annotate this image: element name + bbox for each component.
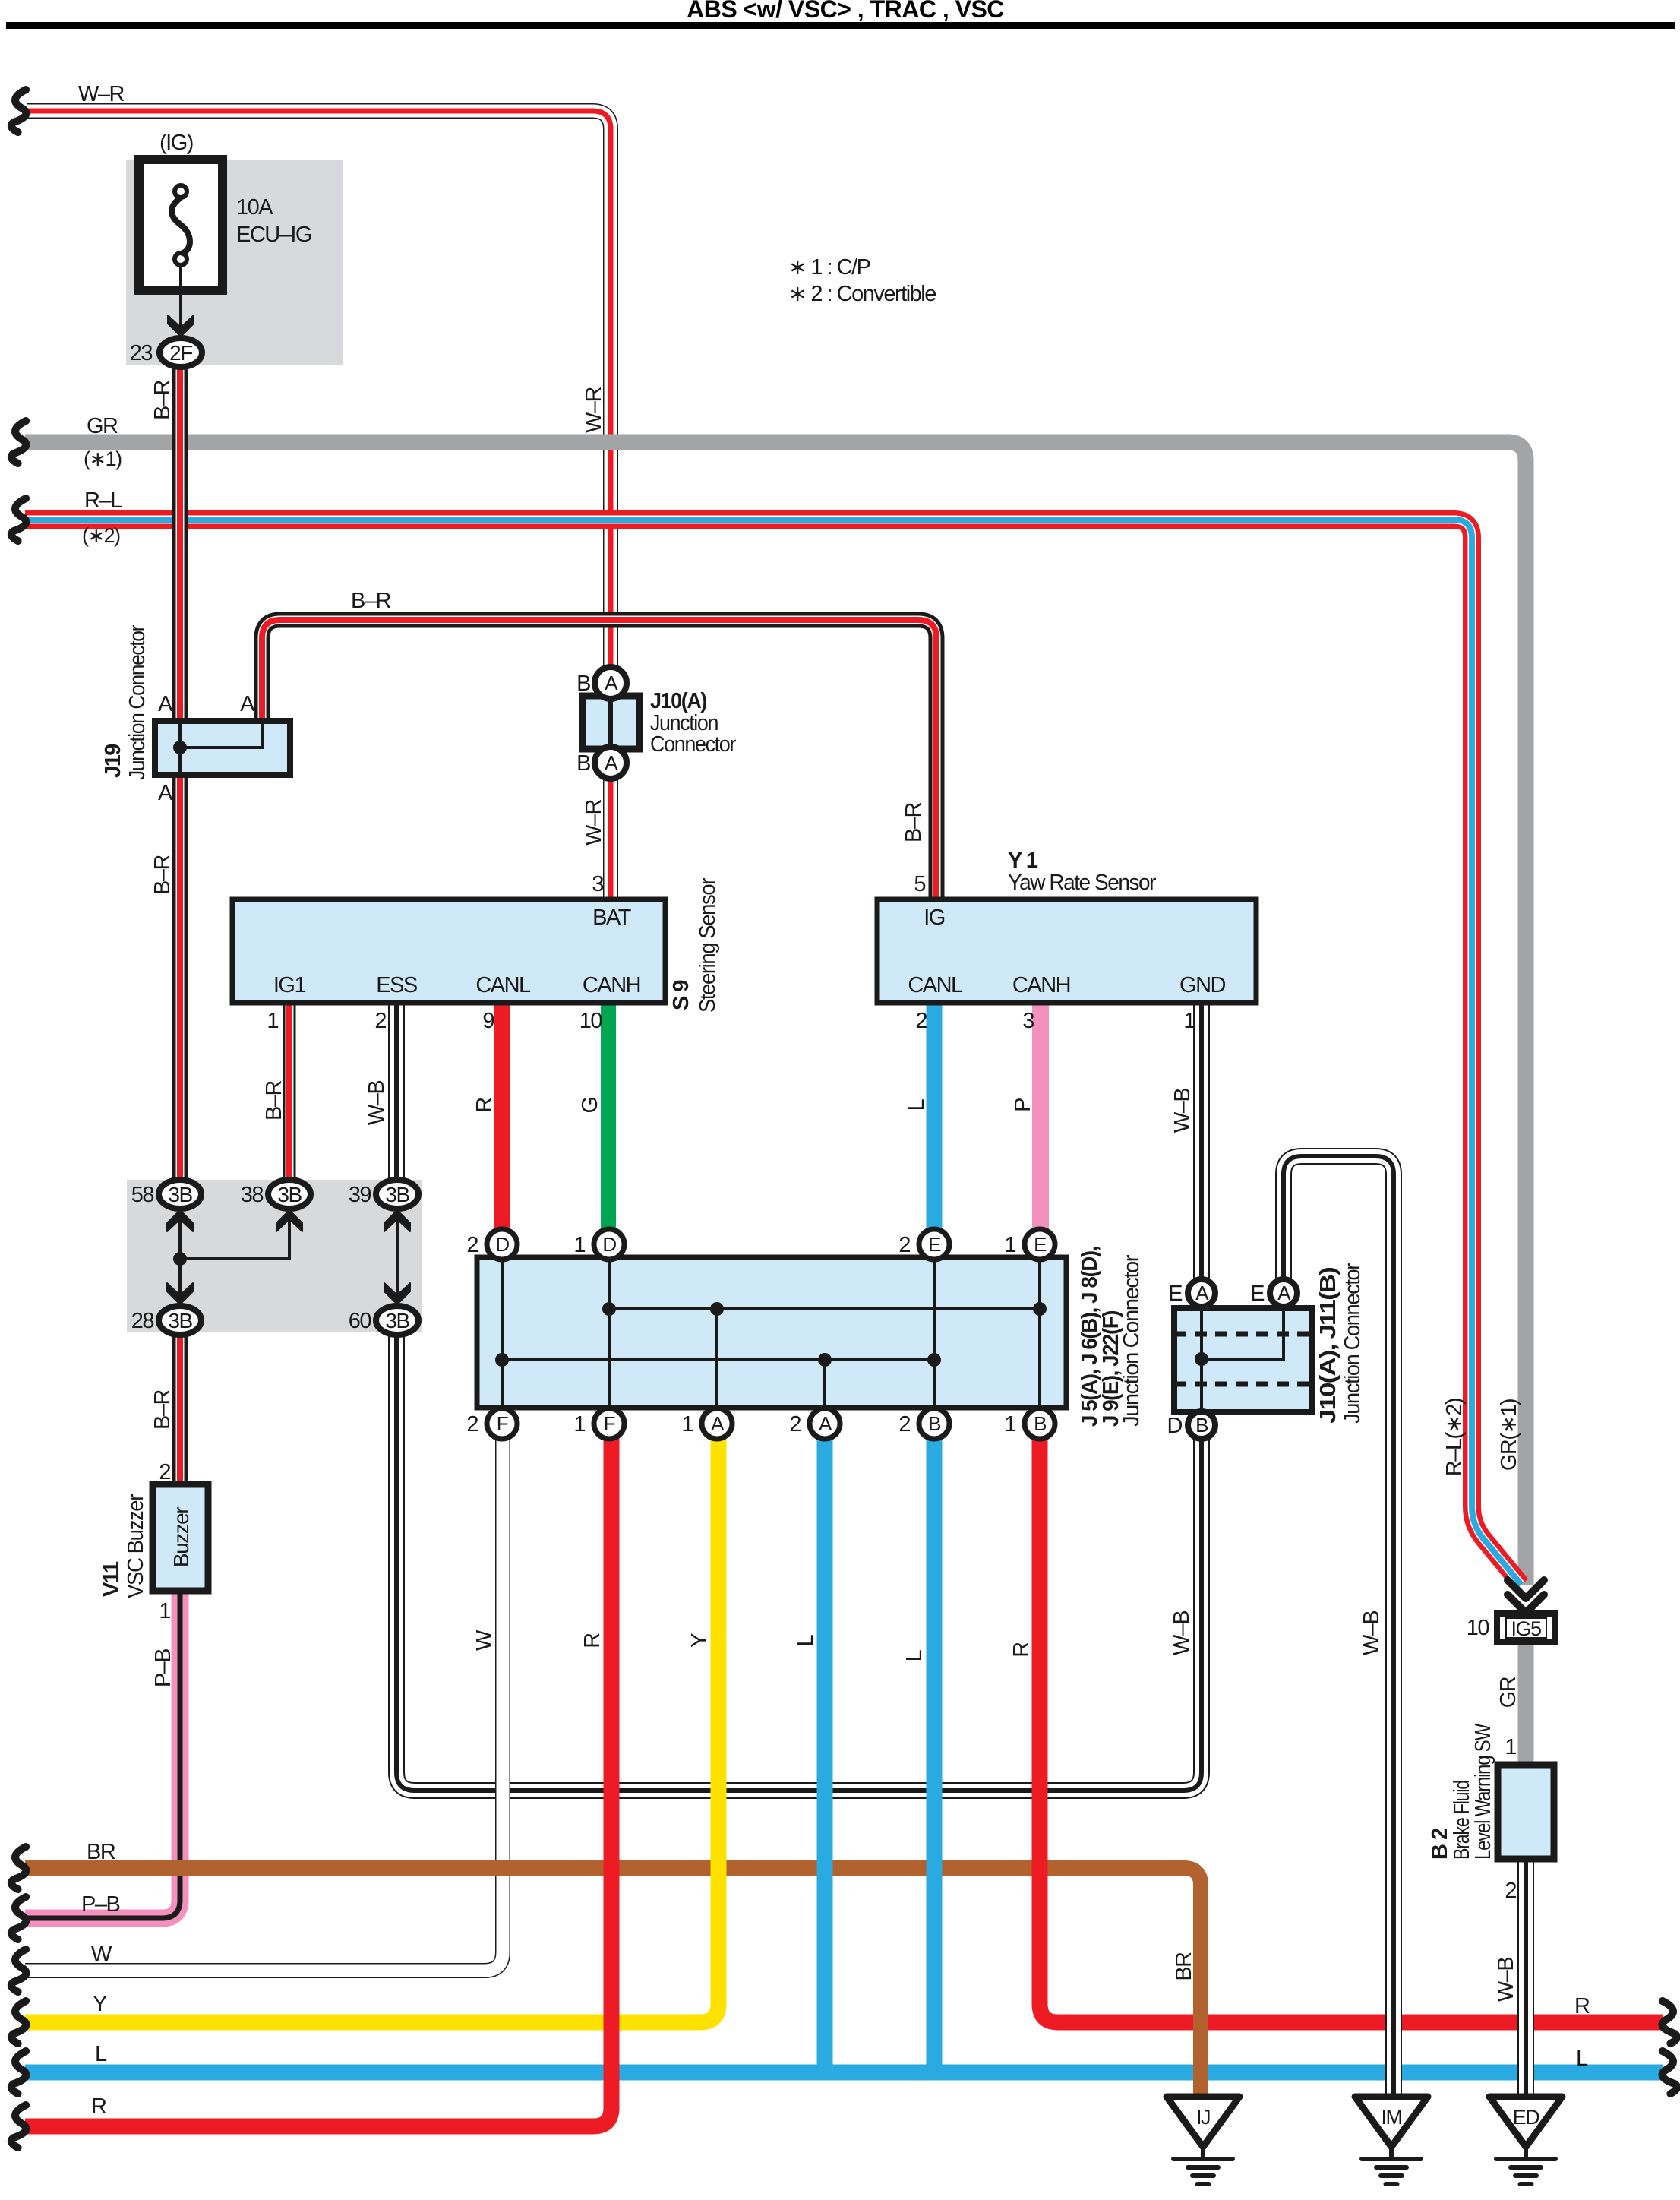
svg-text:IG: IG [924,906,945,930]
svg-text:J10(A), J11(B): J10(A), J11(B) [1316,1267,1341,1424]
svg-text:L: L [95,2042,107,2066]
svg-text:ED: ED [1513,2106,1540,2129]
junction pin D2 [466,1229,517,1260]
junction pin F2 [466,1408,517,1439]
wire GR IG5 to B2 [1518,1642,1534,1765]
junction pin A2 [789,1408,840,1439]
wire B-R S9 IG1 to ECU pin 38 [283,1003,296,1182]
wire B-R branch J19 to Y1 IG [262,620,936,899]
junction pin A1 [681,1408,732,1439]
svg-text:IG5: IG5 [1511,1617,1541,1640]
svg-text:R: R [472,1098,497,1113]
svg-text:BR: BR [1172,1952,1196,1981]
svg-text:1: 1 [681,1412,693,1437]
junction pin F1 [573,1408,624,1439]
junction pin B2 [898,1408,949,1439]
component V11 VSC buzzer box [153,1484,208,1591]
svg-text:L: L [794,1634,818,1646]
svg-text:3B: 3B [385,1309,409,1332]
harness break R right [1663,2001,1678,2044]
harness break BR [11,1847,27,1889]
svg-text:B: B [1034,1412,1046,1435]
svg-text:5: 5 [914,872,925,896]
svg-text:GR: GR [1496,1677,1521,1708]
svg-text:1: 1 [1004,1233,1015,1257]
svg-text:IJ: IJ [1196,2106,1210,2129]
fuse 10A ECU-IG [139,160,223,290]
connector 3B pin 58 [131,1180,201,1209]
svg-text:L: L [902,1649,927,1661]
svg-text:CANH: CANH [583,973,640,997]
wire W-B S9 ESS to ECU pin 39 [388,1003,405,1182]
svg-text:9: 9 [482,1009,494,1033]
svg-text:B–R: B–R [351,589,390,613]
wire W-B J10/J11 pin A loop to IM ground [1284,1156,1394,2097]
arrow into 39 [384,1210,410,1231]
junction internal bus lower [502,1358,934,1361]
svg-text:2F: 2F [169,341,192,365]
svg-text:R: R [91,2094,106,2119]
J10(A) divider [608,696,613,749]
svg-text:1: 1 [267,1009,278,1033]
svg-text:3: 3 [1022,1009,1034,1033]
svg-text:F: F [497,1412,508,1435]
junction connector J10(A)/J11(B) box [1174,1308,1312,1412]
svg-text:P–B: P–B [151,1649,175,1687]
svg-text:B: B [576,751,590,776]
wire R junction B1 to right harness [1040,1437,1663,2022]
J10/J11 pin A right [1250,1279,1297,1307]
svg-text:2: 2 [159,1460,170,1484]
svg-text:E: E [1168,1282,1183,1306]
svg-text:A: A [158,781,173,805]
svg-text:CANL: CANL [908,973,963,997]
svg-text:R–L: R–L [84,488,122,513]
svg-text:W–B: W–B [1170,1611,1194,1656]
svg-text:∗ 2 : Convertible: ∗ 2 : Convertible [788,282,936,306]
svg-text:B: B [576,672,590,696]
svg-text:ECU–IG: ECU–IG [236,223,311,247]
svg-text:B: B [928,1412,940,1435]
connector IG5 [1497,1614,1555,1642]
arrow into 60 [384,1283,410,1304]
connector 3B pin 28 [131,1306,201,1335]
svg-text:2: 2 [898,1412,910,1437]
junction dot [602,1302,616,1316]
svg-text:R: R [580,1633,605,1648]
svg-text:BR: BR [87,1840,115,1864]
svg-text:W–R: W–R [78,82,125,106]
svg-text:Level Warning SW: Level Warning SW [1471,1723,1495,1860]
svg-text:B 2: B 2 [1428,1829,1452,1860]
J19 internal wire [180,721,262,775]
svg-text:28: 28 [131,1309,154,1333]
svg-text:D: D [495,1233,509,1256]
svg-text:V11: V11 [99,1561,124,1597]
svg-text:Junction Connector: Junction Connector [125,624,150,780]
wire B-R ECU pin 28 to VSC buzzer [172,1332,188,1484]
svg-text:1: 1 [573,1233,585,1257]
svg-text:Y: Y [687,1633,712,1648]
junction internal verticals [502,1257,1040,1408]
wire BR drop to IJ ground [1167,1868,1201,2097]
ground IM [1355,2097,1428,2184]
svg-text:2: 2 [1505,1879,1516,1903]
svg-text:P: P [1011,1098,1035,1112]
svg-text:L: L [1576,2047,1588,2071]
harness break W [11,1949,27,1992]
component S9 steering sensor box [232,899,665,1003]
ECU internal wire 58-38-28 [180,1209,289,1306]
wire W-B ECU pin 60 to J10/J11 pin B [396,1335,1202,1791]
harness break W-R [11,90,27,132]
ABS ECU shaded area [127,1180,422,1332]
svg-text:A: A [605,672,618,694]
ECU internal junction dot [173,1252,187,1266]
svg-text:3B: 3B [277,1183,302,1206]
wire L junction A2 drop [817,1437,833,2072]
svg-text:R: R [1009,1642,1034,1658]
svg-text:1: 1 [573,1412,585,1437]
fuse block shaded area [126,160,343,365]
svg-text:60: 60 [349,1309,371,1333]
junction connector J19 box [155,721,290,775]
svg-text:IM: IM [1382,2106,1402,2129]
wire W-B B2 to ED ground [1517,1859,1534,2097]
junction pin D1 [573,1229,624,1260]
ground ED [1489,2097,1562,2184]
J10(A) pin A top [595,667,627,699]
svg-text:1: 1 [159,1599,170,1623]
wire B-R main fuse 2F to ECU pin 58 [172,365,188,1182]
svg-text:2: 2 [915,1009,927,1033]
svg-text:BAT: BAT [592,906,632,930]
harness break R-L [11,498,27,541]
svg-text:W–R: W–R [582,387,606,433]
svg-text:1: 1 [1505,1735,1516,1759]
svg-text:A: A [711,1412,725,1435]
svg-text:Junction Connector: Junction Connector [1341,1263,1365,1424]
J10/J11 pin B [1167,1411,1215,1439]
svg-text:A: A [819,1412,832,1435]
junction dot [927,1353,941,1367]
harness break P-B [11,1897,27,1939]
harness break GR [11,421,27,463]
component Y1 yaw rate sensor box [877,899,1256,1003]
connector 3B pin 60 [349,1306,418,1335]
svg-text:IG1: IG1 [273,973,306,997]
svg-text:W–B: W–B [1359,1611,1384,1656]
svg-text:S 9: S 9 [669,980,693,1010]
component B2 brake fluid level warning SW box [1498,1765,1554,1859]
chevron arrow into IG5 [1508,1580,1544,1613]
svg-text:GR: GR [87,414,118,438]
J10/J11 pin A left [1168,1279,1215,1307]
svg-text:B–R: B–R [902,802,926,842]
svg-text:W–B: W–B [1494,1958,1518,2002]
svg-text:W–B: W–B [365,1081,389,1126]
svg-text:A: A [1195,1282,1209,1304]
J19 internal junction dot [173,741,187,754]
junction internal bus upper [609,1307,1040,1310]
svg-text:38: 38 [241,1183,264,1207]
svg-text:(∗2): (∗2) [82,524,120,547]
svg-text:Y 1: Y 1 [1008,849,1038,873]
svg-text:A: A [605,751,618,774]
arrow into 38 [276,1210,302,1231]
wire BR left harness [25,1860,1185,1876]
harness break L right [1663,2051,1678,2094]
wire L junction B2 drop [927,1437,943,2072]
svg-text:(IG): (IG) [159,131,193,155]
svg-text:CANL: CANL [475,973,531,997]
svg-text:VSC Buzzer: VSC Buzzer [124,1494,148,1598]
connector 3B pin 39 [349,1180,418,1209]
junction dot [710,1302,724,1316]
svg-text:Y: Y [93,1992,107,2016]
svg-text:Yaw Rate Sensor: Yaw Rate Sensor [1008,871,1157,895]
svg-text:J10(A): J10(A) [650,689,707,713]
svg-text:2: 2 [466,1233,478,1257]
svg-text:10: 10 [579,1009,602,1033]
svg-text:W–B: W–B [1170,1089,1195,1133]
J10(A) pin A bottom [595,747,627,779]
svg-text:Connector: Connector [650,732,737,757]
svg-text:G: G [578,1097,602,1113]
junction pin B1 [1004,1408,1055,1439]
svg-text:W: W [472,1629,497,1651]
svg-text:B–R: B–R [150,855,175,894]
svg-text:B–R: B–R [150,380,175,419]
svg-text:2: 2 [789,1412,801,1437]
svg-text:E: E [1250,1282,1265,1306]
svg-text:R: R [1574,1994,1590,2018]
svg-text:ESS: ESS [376,973,418,997]
svg-text:∗ 1 : C/P: ∗ 1 : C/P [788,255,870,280]
junction pin E2 [898,1229,949,1260]
svg-text:10A: 10A [236,195,273,220]
svg-text:2: 2 [898,1233,910,1257]
wire G S9 CANH to junction D1 [601,1003,616,1231]
svg-text:CANH: CANH [1012,973,1070,997]
svg-text:2: 2 [374,1009,386,1033]
svg-text:A: A [1277,1282,1291,1304]
svg-text:L: L [905,1098,929,1111]
wire W-B Y1 GND to J10/J11 pin A [1193,1003,1210,1281]
svg-text:ABS <w/ VSC> , TRAC , VSC: ABS <w/ VSC> , TRAC , VSC [687,0,1004,23]
svg-text:3: 3 [592,872,603,896]
svg-text:B–R: B–R [262,1080,286,1120]
svg-text:GND: GND [1179,973,1226,997]
wire P-B VSC buzzer to left harness [25,1592,180,1918]
J10/J11 dashed line lower [1174,1382,1312,1387]
wire R left harness to junction F1 [25,1437,611,2126]
svg-text:D: D [1167,1414,1183,1438]
harness break Y [11,2001,27,2044]
svg-text:Junction Connector: Junction Connector [1119,1254,1144,1427]
wire W-R from fuse ECU-IG to S9 BAT [27,111,611,899]
J10/J11 dashed line upper [1174,1332,1312,1337]
wire W junction F2 to left harness [25,1437,503,1971]
wire R S9 CANL to junction D2 [494,1003,510,1231]
J10/J11 junction dot [1195,1352,1208,1366]
connector 3B pin 38 [241,1180,311,1209]
ground IJ [1167,2097,1239,2184]
svg-text:3B: 3B [385,1183,409,1206]
svg-text:R–L(∗2): R–L(∗2) [1442,1399,1467,1476]
svg-text:E: E [928,1233,941,1256]
svg-text:39: 39 [349,1183,371,1207]
wire GR to IG5 chevron [25,442,1526,1585]
junction connector J10(A) box [583,696,639,749]
ECU internal wire 39-60 [396,1209,399,1306]
wire R-L to IG5 chevron [25,520,1521,1585]
svg-text:10: 10 [1467,1616,1489,1640]
wire P Y1 CANH to junction E1 [1032,1003,1049,1231]
svg-text:(∗1): (∗1) [84,447,122,470]
wire L Y1 CANL to junction E2 [927,1003,943,1231]
svg-text:Buzzer: Buzzer [169,1507,193,1567]
junction connector J5/J6/J8/J9/J22 box [477,1257,1066,1408]
svg-text:J19: J19 [101,744,125,778]
svg-text:W: W [91,1942,112,1967]
svg-text:D: D [602,1233,616,1256]
junction dot [1033,1302,1047,1316]
svg-text:Steering Sensor: Steering Sensor [696,877,720,1013]
wire L left harness to right harness [25,2065,1663,2081]
svg-text:1: 1 [1183,1009,1195,1033]
svg-text:W–R: W–R [582,799,606,846]
J10/J11 internal wire [1202,1308,1284,1412]
arrow into 28 [167,1283,193,1304]
svg-text:2: 2 [466,1412,478,1437]
wire fuse to connector 2F [179,265,182,337]
harness break R left [11,2105,27,2148]
svg-text:23: 23 [130,341,153,365]
svg-text:1: 1 [1004,1412,1015,1437]
svg-text:B: B [1195,1414,1208,1437]
title rule [6,22,1675,29]
svg-text:A: A [158,692,173,716]
svg-text:E: E [1034,1233,1047,1256]
svg-text:A: A [240,692,255,716]
svg-text:3B: 3B [168,1309,192,1332]
wire Y left harness to junction A1 [25,1437,718,2022]
junction pin E1 [1004,1229,1055,1260]
svg-text:GR(∗1): GR(∗1) [1497,1399,1521,1471]
svg-text:B–R: B–R [150,1389,175,1429]
junction dot [818,1353,832,1367]
harness break L left [11,2051,27,2094]
svg-text:P–B: P–B [81,1892,119,1917]
connector 2F pin 23 [130,338,202,367]
svg-text:3B: 3B [168,1183,192,1206]
arrow into 2F [168,315,194,337]
arrow into 58 [167,1210,193,1231]
svg-text:F: F [604,1412,615,1435]
svg-text:58: 58 [131,1183,154,1207]
junction dot [495,1353,509,1367]
